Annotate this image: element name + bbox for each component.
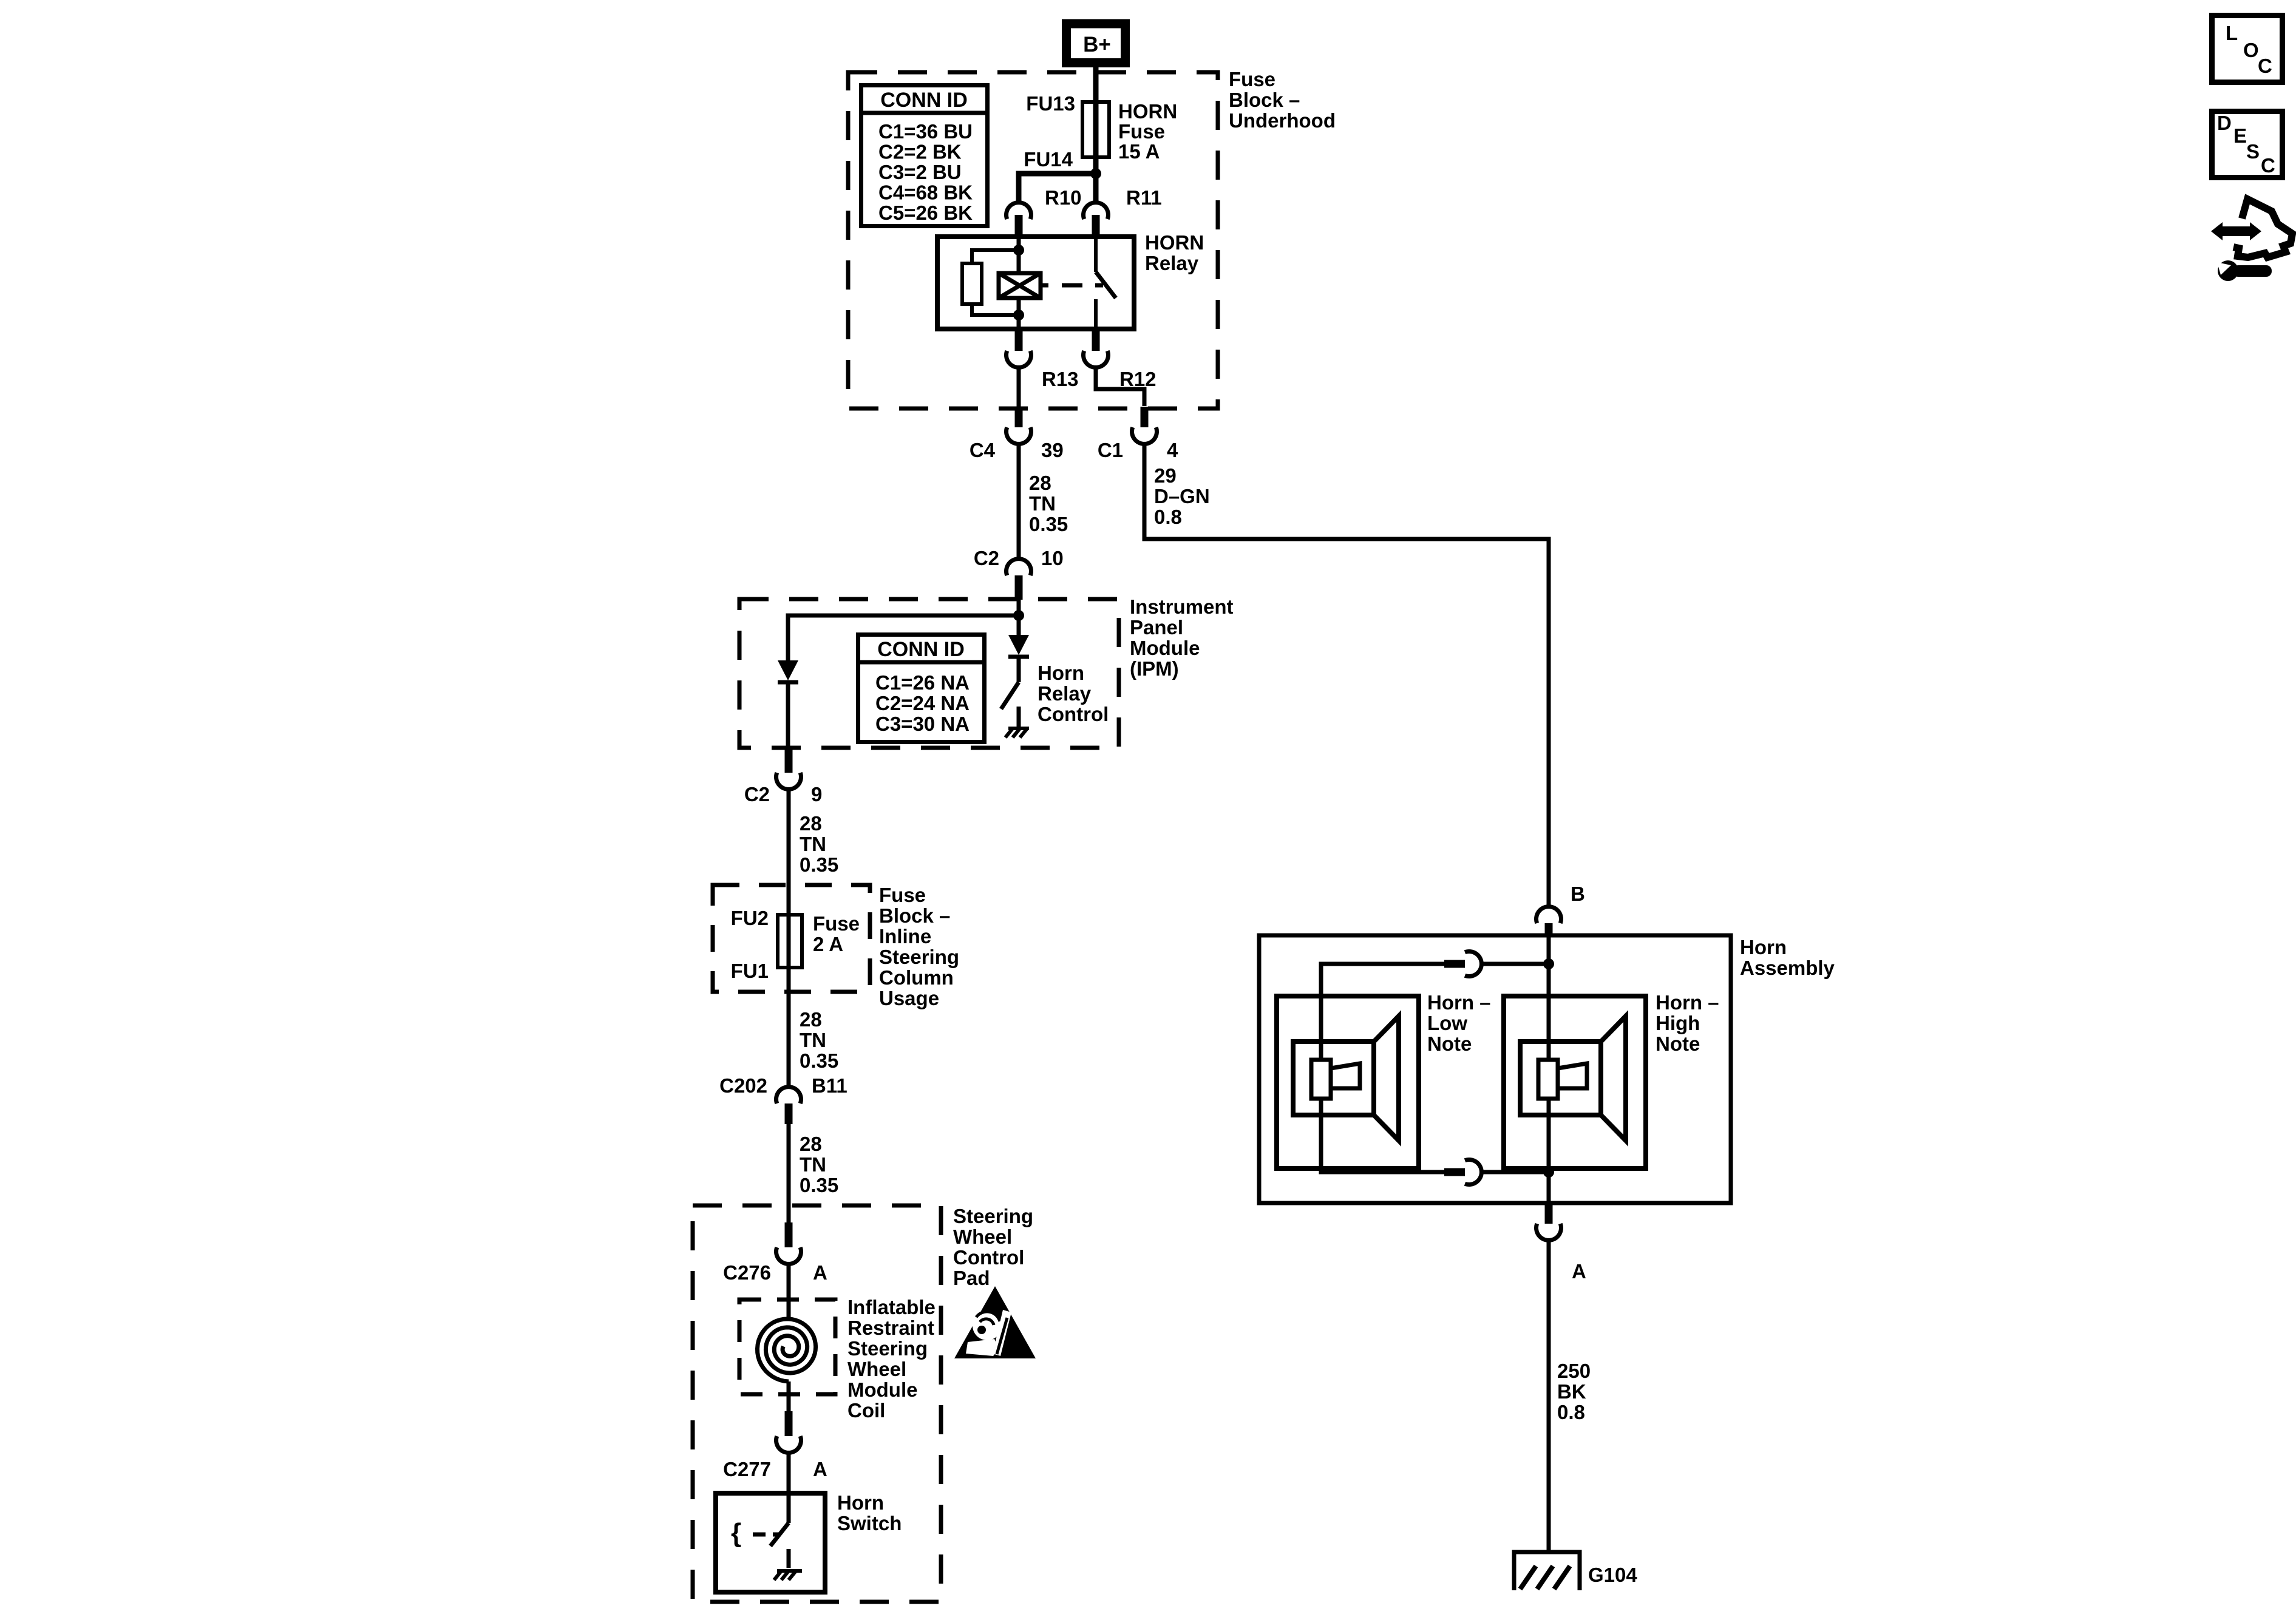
svg-text:Horn: Horn: [1038, 662, 1084, 684]
wire diode to horn relay control switch: [1017, 657, 1021, 682]
legend box LOC: [2212, 16, 2283, 83]
connector C276 pin A: [776, 1222, 801, 1264]
svg-text:0.35: 0.35: [800, 1049, 838, 1072]
airbag warning triangle: [954, 1286, 1036, 1358]
module Instrument Panel Module (IPM) dashed outline: [739, 599, 1119, 748]
wire 28 TN 0.35 (to steering wheel pad): [787, 1124, 791, 1227]
svg-text:C: C: [2258, 55, 2272, 77]
svg-text:Relay: Relay: [1145, 252, 1199, 274]
svg-text:CONN ID: CONN ID: [880, 89, 968, 112]
wire FU14 branch: [1019, 174, 1096, 202]
svg-text:Horn –: Horn –: [1427, 991, 1491, 1014]
svg-text:Inflatable: Inflatable: [847, 1296, 936, 1318]
label Fuse Block - Underhood: [1229, 68, 1336, 132]
wire to R11: [1093, 174, 1099, 203]
wire 28 TN 0.35 (C4 to C2): [1017, 444, 1021, 559]
svg-text:Control: Control: [1038, 703, 1109, 725]
relay coil wire bottom: [1017, 298, 1021, 329]
svg-text:Module: Module: [847, 1378, 917, 1401]
svg-text:Fuse: Fuse: [879, 884, 926, 906]
relay coil (box with X): [999, 273, 1041, 298]
svg-text:C1=26 NA: C1=26 NA: [875, 671, 970, 694]
value label Fuse 2 A: [813, 912, 860, 955]
wire C277 to horn switch: [787, 1453, 791, 1524]
relay junction top: [1013, 245, 1024, 256]
label Fuse Block - Inline Steering Column Usage: [879, 884, 959, 1009]
svg-text:Block –: Block –: [879, 904, 950, 927]
svg-text:FU2: FU2: [731, 907, 769, 929]
fuse block inline dashed outline: [713, 885, 870, 992]
connector table CONN ID (underhood): [859, 86, 990, 226]
fuse block underhood dashed outline: [848, 72, 1218, 408]
svg-text:Restraint: Restraint: [847, 1317, 934, 1339]
svg-text:Pad: Pad: [953, 1267, 990, 1289]
legend box DESC: [2212, 112, 2283, 178]
connector A: [1537, 1203, 1561, 1240]
IPM internal ground: [1005, 728, 1029, 737]
svg-text:O: O: [2243, 39, 2259, 61]
coil lead top: [787, 1264, 791, 1321]
label Horn Switch: [837, 1491, 902, 1534]
fuse FU13 HORN Fuse 15 A: [1082, 102, 1109, 157]
svg-text:28: 28: [800, 812, 822, 835]
svg-text:C5=26 BK: C5=26 BK: [878, 202, 973, 224]
pin R13 connector: [1007, 330, 1031, 367]
svg-text:Fuse: Fuse: [1229, 68, 1275, 90]
svg-text:Block –: Block –: [1229, 89, 1300, 111]
svg-text:TN: TN: [1029, 492, 1056, 515]
svg-text:Inline: Inline: [879, 925, 931, 947]
connector C2 pin 10: [1007, 559, 1031, 600]
svg-text:C202: C202: [719, 1074, 767, 1097]
svg-text:G104: G104: [1588, 1564, 1637, 1586]
relay coil wire top: [1017, 237, 1021, 273]
svg-text:C1=36 BU: C1=36 BU: [878, 120, 973, 143]
svg-text:C4: C4: [970, 439, 996, 461]
svg-text:39: 39: [1041, 439, 1064, 461]
svg-text:B11: B11: [812, 1074, 847, 1097]
connector C277 pin A: [776, 1411, 801, 1453]
svg-text:Coil: Coil: [847, 1399, 885, 1422]
svg-text:Wheel: Wheel: [847, 1358, 906, 1380]
svg-text:A: A: [813, 1458, 827, 1480]
wire R12 to C1: [1096, 368, 1144, 407]
svg-text:C2: C2: [744, 783, 770, 805]
svg-text:B+: B+: [1083, 33, 1111, 56]
connector C1 pin 4: [1132, 407, 1157, 444]
inflatable restraint coil dashed outline: [739, 1300, 835, 1394]
svg-text:Usage: Usage: [879, 987, 939, 1009]
wire label 28 TN 0.35: [1029, 472, 1068, 535]
wire 29 D-GN 0.8 to horn assembly: [1144, 444, 1549, 907]
svg-text:Note: Note: [1427, 1032, 1472, 1055]
svg-text:Switch: Switch: [837, 1512, 902, 1534]
legend icon component view (arrow, fender, wrench): [2211, 199, 2292, 281]
svg-text:C276: C276: [723, 1261, 771, 1284]
diode D1 (left): [778, 660, 798, 682]
svg-text:Fuse: Fuse: [1118, 120, 1165, 143]
svg-text:Relay: Relay: [1038, 682, 1092, 705]
svg-text:28: 28: [1029, 472, 1051, 494]
svg-text:R10: R10: [1045, 186, 1082, 209]
diode D2 (right): [1008, 635, 1029, 657]
svg-text:0.8: 0.8: [1557, 1401, 1585, 1423]
wire R13 to C4: [1017, 368, 1021, 407]
svg-text:Steering: Steering: [879, 946, 959, 968]
svg-text:2 A: 2 A: [813, 933, 843, 955]
svg-text:C3=2 BU: C3=2 BU: [878, 161, 962, 183]
label HORN Relay: [1145, 231, 1204, 274]
svg-text:4: 4: [1167, 439, 1178, 461]
wire low note branch: [1481, 962, 1549, 966]
component Horn - Low Note: [1277, 996, 1419, 1168]
connector C4 pin 39: [1007, 407, 1031, 444]
svg-text:Steering: Steering: [847, 1337, 928, 1360]
value label HORN Fuse 15 A: [1118, 100, 1177, 163]
relay resistor: [962, 250, 1019, 315]
svg-text:A: A: [1572, 1260, 1586, 1283]
svg-text:Control: Control: [953, 1246, 1024, 1269]
horn switch contact and blade: [731, 1518, 789, 1568]
svg-text:R13: R13: [1042, 368, 1079, 390]
svg-text:29: 29: [1154, 464, 1177, 487]
svg-text:Module: Module: [1130, 637, 1200, 659]
svg-text:FU14: FU14: [1024, 148, 1073, 171]
svg-text:HORN: HORN: [1145, 231, 1204, 254]
svg-text:C277: C277: [723, 1458, 771, 1480]
svg-text:C2: C2: [974, 547, 999, 569]
svg-text:Fuse: Fuse: [813, 912, 860, 935]
svg-text:TN: TN: [800, 1153, 826, 1176]
svg-text:Horn –: Horn –: [1656, 991, 1719, 1014]
svg-text:(IPM): (IPM): [1130, 657, 1179, 680]
svg-text:TN: TN: [800, 1029, 826, 1051]
wire label 28 TN 0.35: [800, 1133, 838, 1196]
junction top (horn assembly): [1543, 958, 1554, 969]
wire label 250 BK 0.8: [1557, 1360, 1591, 1423]
svg-text:28: 28: [800, 1133, 822, 1155]
label Horn Relay Control: [1038, 662, 1109, 725]
switch horn relay control: [1001, 682, 1019, 727]
svg-text:Wheel: Wheel: [953, 1225, 1012, 1248]
svg-text:15 A: 15 A: [1118, 140, 1160, 163]
inline connector (low horn bottom): [1444, 1159, 1481, 1184]
wire label 28 TN 0.35 (below inline fuse): [800, 1008, 838, 1072]
svg-text:L: L: [2226, 22, 2238, 44]
wire diode to C2 pin 9: [786, 682, 790, 748]
relay HORN Relay box: [937, 237, 1134, 329]
wire IPM branch left: [788, 615, 1019, 660]
svg-text:0.8: 0.8: [1154, 506, 1182, 528]
svg-text:Column: Column: [879, 966, 954, 989]
svg-text:C4=68 BK: C4=68 BK: [878, 181, 973, 204]
svg-text:0.35: 0.35: [800, 1174, 838, 1196]
svg-text:Horn: Horn: [1740, 936, 1787, 958]
svg-text:S: S: [2246, 140, 2260, 163]
svg-text:C2=2 BK: C2=2 BK: [878, 141, 962, 163]
svg-text:E: E: [2233, 124, 2247, 147]
ground G104: [1514, 1552, 1580, 1590]
fuse FU2/FU1 2A: [778, 915, 802, 968]
svg-text:TN: TN: [800, 833, 826, 855]
svg-text:BK: BK: [1557, 1380, 1586, 1403]
svg-text:Steering: Steering: [953, 1205, 1033, 1227]
horn switch internal ground: [774, 1570, 802, 1580]
label Horn - Low Note: [1427, 991, 1491, 1055]
svg-text:0.35: 0.35: [1029, 513, 1068, 535]
svg-text:Low: Low: [1427, 1012, 1467, 1034]
svg-text:C1: C1: [1098, 439, 1123, 461]
svg-text:FU13: FU13: [1026, 92, 1075, 115]
battery feed terminal B+: [1067, 24, 1126, 63]
svg-text:10: 10: [1041, 547, 1064, 569]
svg-text:Horn: Horn: [837, 1491, 884, 1514]
wire coil to C277: [787, 1381, 791, 1415]
relay switch: [1096, 237, 1116, 329]
inline connector (low horn top): [1444, 951, 1481, 976]
svg-text:B: B: [1571, 883, 1585, 905]
junction below fuse: [1090, 168, 1101, 179]
wire label 29 D-GN 0.8: [1154, 464, 1210, 528]
svg-text:CONN ID: CONN ID: [877, 638, 965, 661]
connector C2 pin 9: [776, 748, 801, 789]
svg-text:Note: Note: [1656, 1032, 1700, 1055]
label Steering Wheel Control Pad: [953, 1205, 1033, 1289]
connector R11: [1083, 203, 1108, 237]
wire 250 BK 0.8 to ground: [1547, 1241, 1551, 1553]
svg-text:D: D: [2217, 112, 2232, 134]
svg-text:C: C: [2261, 154, 2275, 177]
relay junction bottom: [1013, 310, 1024, 320]
svg-text:Panel: Panel: [1130, 616, 1183, 639]
IPM junction: [1013, 610, 1024, 621]
svg-text:C2=24 NA: C2=24 NA: [875, 692, 970, 714]
label Instrument Panel Module (IPM): [1130, 595, 1234, 680]
svg-text:Underhood: Underhood: [1229, 109, 1336, 132]
svg-text:A: A: [813, 1261, 827, 1284]
svg-text:28: 28: [800, 1008, 822, 1031]
pin R12 connector: [1083, 330, 1108, 367]
svg-text:High: High: [1656, 1012, 1700, 1034]
svg-text:C3=30 NA: C3=30 NA: [875, 713, 970, 735]
component Horn - High Note: [1504, 996, 1646, 1168]
label Inflatable Restraint Steering Wheel Module Coil: [847, 1296, 936, 1422]
svg-text:Instrument: Instrument: [1130, 595, 1234, 618]
svg-text:R12: R12: [1119, 368, 1156, 390]
junction bottom (horn assembly): [1543, 1167, 1554, 1178]
svg-text:R11: R11: [1126, 186, 1162, 209]
coil spiral (SIR coil): [758, 1319, 816, 1381]
label Horn - High Note: [1656, 991, 1719, 1055]
svg-text:9: 9: [811, 783, 822, 805]
wire into IPM: [1017, 600, 1021, 635]
horn assembly box: [1259, 935, 1731, 1203]
wire B+ to fuse FU13: [1093, 66, 1099, 174]
svg-text:Assembly: Assembly: [1740, 957, 1835, 979]
module Steering Wheel Control Pad dashed outline: [693, 1205, 941, 1602]
connector table CONN ID (IPM): [856, 635, 987, 742]
wire 28 TN 0.35 (to inline fuse): [787, 790, 791, 1087]
svg-text:D–GN: D–GN: [1154, 485, 1210, 507]
connector R10: [1007, 203, 1031, 237]
label Horn Assembly: [1740, 936, 1835, 979]
wire label 28 TN 0.35: [800, 812, 838, 876]
svg-text:0.35: 0.35: [800, 853, 838, 876]
svg-text:FU1: FU1: [731, 960, 769, 982]
switch Horn Switch box: [716, 1493, 825, 1592]
wire horn assembly main vertical: [1547, 935, 1551, 1203]
svg-text:250: 250: [1557, 1360, 1591, 1382]
svg-text:HORN: HORN: [1118, 100, 1177, 123]
connector C202 pin B11: [776, 1087, 801, 1124]
relay actuation dashed link: [1041, 283, 1103, 288]
svg-text:{: {: [731, 1518, 741, 1548]
connector B: [1537, 907, 1561, 935]
